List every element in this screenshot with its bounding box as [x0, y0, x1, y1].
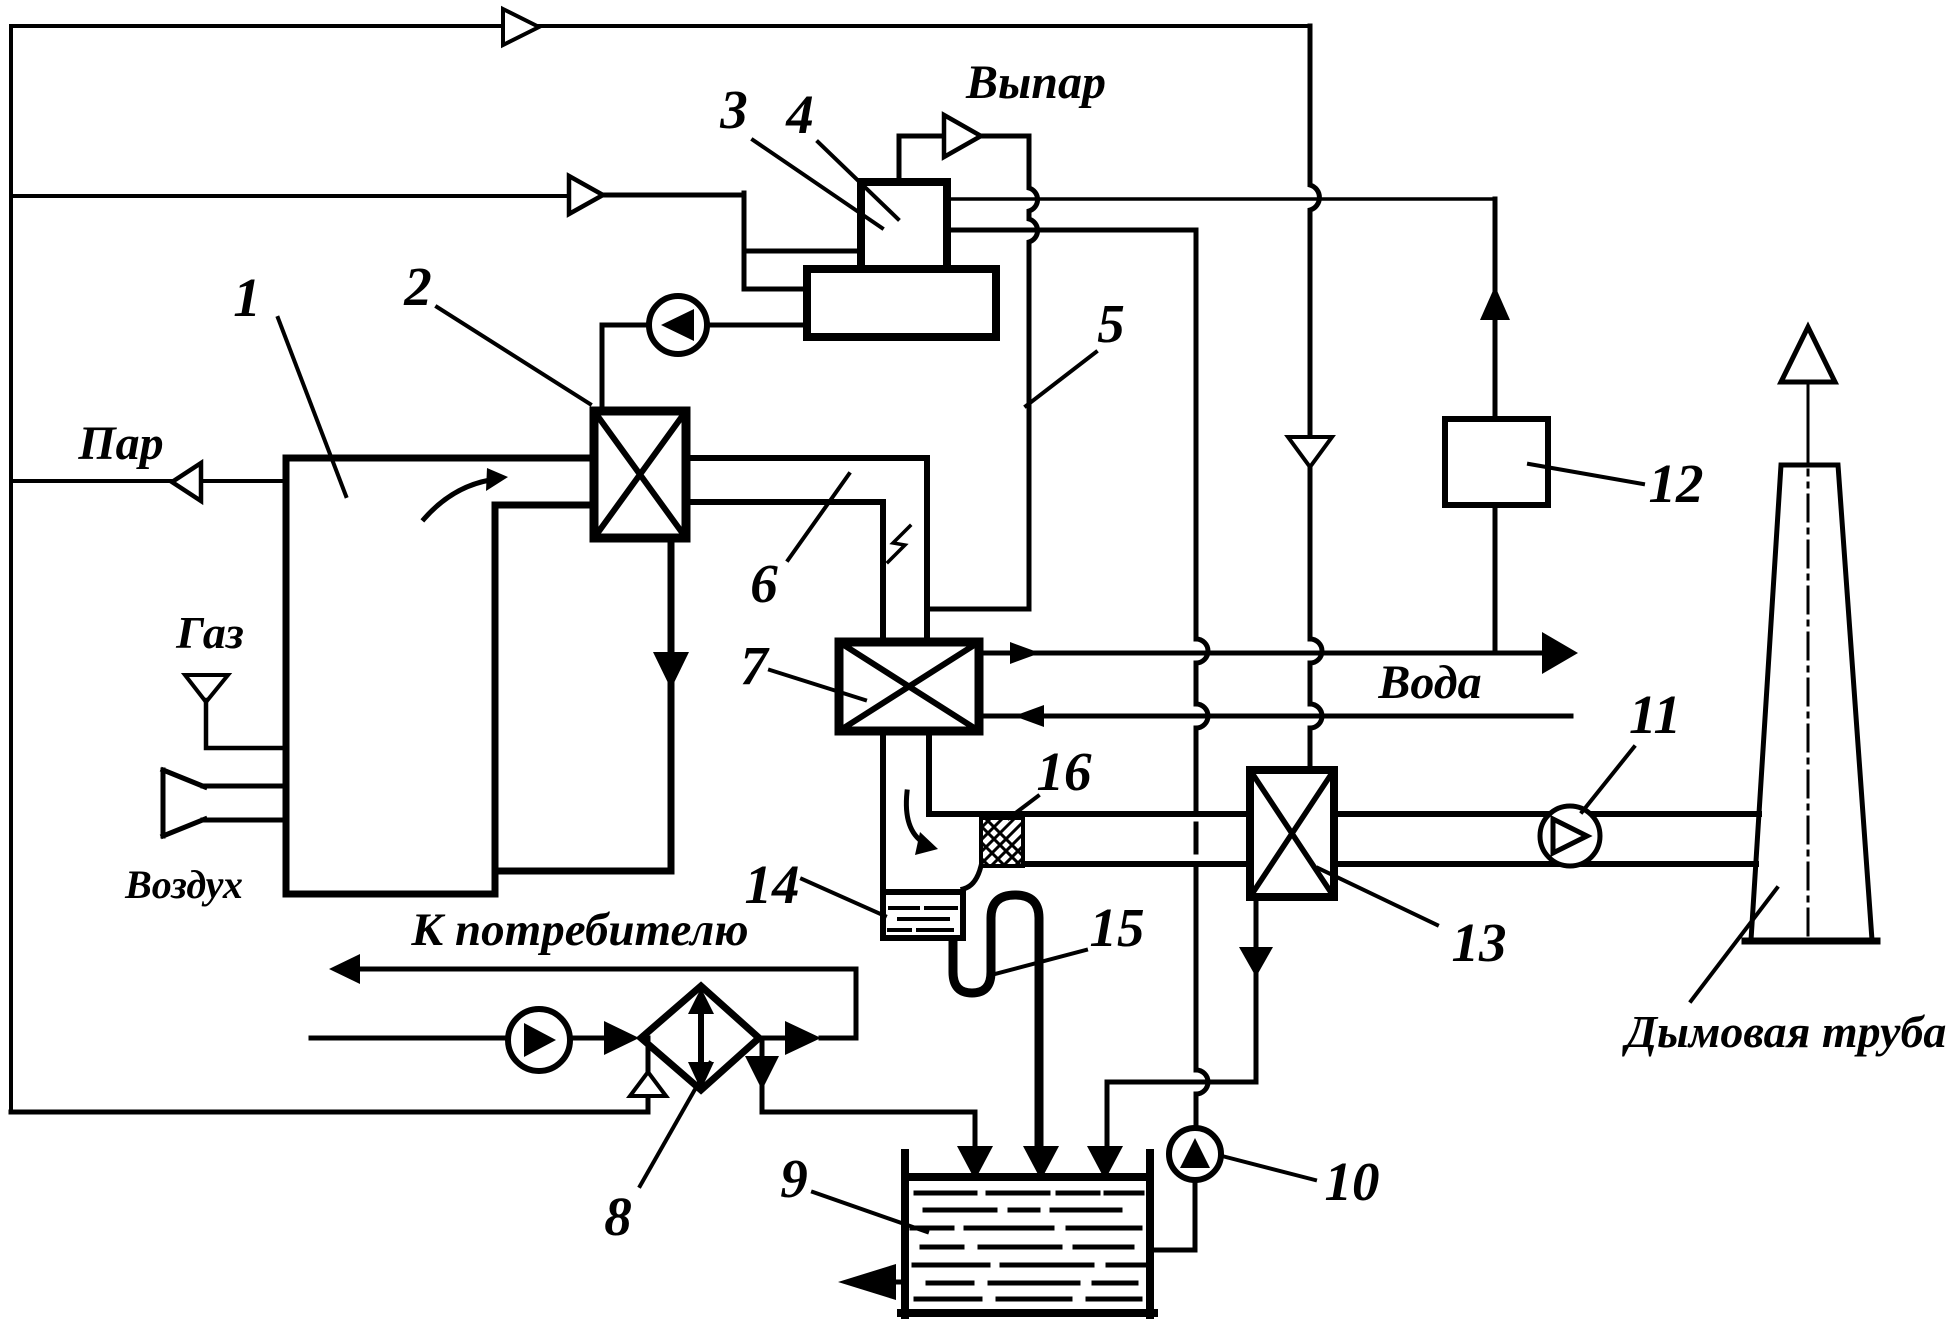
filled left arrow on return water line [1014, 705, 1044, 727]
wire: supply line to network pump [311, 1036, 508, 1041]
chimney axis dash-dot line [1807, 470, 1810, 935]
svg-text:Вода: Вода [1377, 656, 1481, 709]
boiler 1 outer walls [286, 458, 671, 894]
wire: pump suction from exchanger 2 top [602, 325, 649, 411]
svg-text:1: 1 [233, 267, 261, 328]
svg-text:5: 5 [1097, 293, 1125, 354]
leader for chimney label [1691, 888, 1777, 1001]
leader for label 8 [640, 1063, 710, 1186]
flue duct bottom line [1023, 861, 1250, 867]
water seal tank 14 [883, 892, 963, 938]
wire: hot water line Вода upper [979, 651, 1542, 656]
leader for label 7 [770, 670, 865, 700]
svg-text:9: 9 [780, 1148, 808, 1209]
filled arrow after elevator [785, 1021, 821, 1055]
elevator 8 diamond [641, 986, 759, 1090]
filled down arrow on 13 drain [1239, 947, 1273, 977]
open arrow on second line [569, 176, 603, 214]
filled arrow on upper water line [1010, 642, 1040, 664]
svg-text:15: 15 [1090, 897, 1145, 958]
siphon trap 15 [953, 895, 1039, 1146]
svg-text:13: 13 [1452, 912, 1507, 973]
wire: return water line lower [1014, 714, 1571, 719]
svg-text:6: 6 [750, 553, 778, 614]
flue duct from 13 to chimney [1334, 814, 1759, 864]
tank 9 water dashes [916, 1191, 1142, 1196]
wire: top steam recirculation line [11, 24, 1310, 28]
wire: pipe from exchanger 2 bottom-right to exchanger 7 [686, 502, 883, 642]
air funnel symbol [163, 770, 205, 836]
svg-text:Выпар: Выпар [965, 56, 1106, 109]
leader for label 1 [278, 318, 346, 496]
gas funnel symbol [185, 675, 228, 702]
smoke exhauster pump 11 [1540, 806, 1600, 866]
wire: steam output line Пар [11, 479, 286, 483]
chimney trapezoid [1751, 465, 1872, 940]
wire: bottom return line from left border [11, 1110, 648, 1115]
water dashes in tank 14 [889, 908, 956, 930]
filled left arrow К потребителю [329, 954, 360, 984]
tank drain arrow [890, 1280, 905, 1285]
svg-text:4: 4 [785, 84, 814, 145]
big filled arrow at end of water line [1542, 632, 1578, 674]
economizer box 12 [1445, 419, 1548, 505]
exchanger 13 cross diagonals [1250, 770, 1334, 897]
heat exchanger 7 [839, 642, 979, 731]
leader for label 3 [753, 140, 882, 228]
leader for label 16 [1009, 796, 1038, 818]
filled down arrow on elevator branch [745, 1056, 779, 1090]
heat exchanger 13 [1250, 770, 1334, 897]
chimney axis top line [1807, 382, 1810, 465]
leader for label 13 [1318, 868, 1437, 925]
filled arrow before elevator [604, 1021, 639, 1055]
curved gas-flow arrow in boiler furnace [424, 480, 490, 519]
wire: top line vertical branch with hops down to exchanger 13 [1310, 26, 1322, 770]
network pump triangle [524, 1023, 556, 1057]
break mark zigzag on pipe [888, 526, 910, 562]
deaerator tank 4 [807, 269, 996, 337]
three inlet arrows into tank 9 [957, 1146, 993, 1180]
exchanger 2 cross diagonals [594, 411, 686, 538]
network pump circle [508, 1009, 570, 1071]
wire: exchanger 13 bottom drain [1107, 897, 1256, 1148]
svg-text:Дымовая труба: Дымовая труба [1622, 1006, 1947, 1057]
leader for label 12 [1529, 464, 1643, 484]
curve from tank 14 to hatch [963, 866, 981, 889]
deaerator column 3 [861, 182, 947, 277]
leader for label 14 [802, 879, 885, 916]
wire: vent from deaerator head [899, 136, 944, 182]
leader for label 9 [813, 1192, 927, 1232]
wire: elevator down branch to tank [762, 1038, 975, 1146]
pump 10 triangle up [1180, 1138, 1210, 1168]
svg-text:Газ: Газ [175, 607, 244, 658]
exchanger 7 cross diagonals [839, 642, 979, 731]
svg-text:Пар: Пар [77, 417, 163, 470]
open arrow Пар pointing left [172, 463, 201, 501]
elevator interior double arrow [698, 1008, 704, 1068]
heat exchanger 2 (drum) [594, 411, 686, 538]
wire: thin line from column 3 to economizer 12 [946, 197, 1495, 201]
svg-text:8: 8 [604, 1186, 632, 1247]
open valve triangle on that branch [1288, 437, 1332, 467]
wire: thick blowdown line from column 3 turning down [946, 230, 1208, 1128]
leader for label 11 [1582, 747, 1634, 812]
wire: vent line going right then down (line 5) with hops [927, 136, 1038, 609]
tank 9 water surface [905, 1173, 1150, 1181]
feed pump triangle pointing left [661, 309, 694, 341]
wire: pipe from exchanger 2 top-right to exchanger 7 [686, 458, 927, 642]
wire: pump to elevator 8 [570, 1036, 604, 1041]
leader for label 5 [1026, 352, 1096, 406]
down arrow inside boiler second pass [653, 652, 689, 689]
wire: gas supply [206, 700, 286, 748]
wire: left border vertical [9, 26, 13, 1112]
wire: pump 10 suction from tank 9 [1150, 1180, 1195, 1250]
open arrow on top line [503, 9, 539, 45]
curved gas arrow in downcomer [906, 792, 924, 843]
leader for label 10 [1222, 1156, 1315, 1180]
leader for label 4 [818, 142, 898, 219]
wire: second feed line (thin part) [11, 194, 569, 198]
svg-text:Воздух: Воздух [124, 862, 243, 907]
svg-text:16: 16 [1037, 741, 1093, 802]
wire: air duct double line [203, 786, 286, 820]
svg-text:К потребителю: К потребителю [410, 904, 748, 956]
open arrow on vent line Выпар [944, 115, 981, 157]
wire: second feed line thick part to deaerator [603, 193, 861, 289]
make-up tank 9 walls [901, 1153, 1154, 1315]
wire: elevator outlet right [759, 1036, 856, 1041]
wire: box 12 down to water line [1493, 505, 1498, 653]
svg-text:3: 3 [719, 79, 748, 140]
svg-text:14: 14 [745, 854, 800, 915]
svg-text:11: 11 [1629, 684, 1681, 745]
open valve triangle on riser [630, 1072, 666, 1096]
wire: К потребителю upper line [360, 969, 856, 1038]
filled up arrow on that wire [1480, 286, 1510, 320]
wire: riser with check valve to elevator [646, 1038, 651, 1112]
wire: gas downcomer walls below exchanger 7 [883, 731, 929, 892]
leader for label 15 [991, 950, 1086, 975]
wire: from thin line down into box 12 [1493, 199, 1498, 419]
leader for label 6 [788, 474, 849, 560]
wire: feed pump discharge to deaerator tank 4 [707, 323, 807, 328]
svg-text:10: 10 [1325, 1151, 1380, 1212]
chimney base line [1745, 938, 1877, 945]
feed pump circle [649, 296, 707, 354]
svg-text:2: 2 [403, 256, 432, 317]
open arrow at chimney top [1781, 327, 1835, 382]
leader for label 2 [437, 307, 590, 404]
hatch block 16 (packing) [981, 818, 1023, 866]
svg-text:7: 7 [740, 635, 770, 696]
svg-text:12: 12 [1649, 453, 1704, 514]
flue duct top line [929, 811, 1250, 817]
pump 10 circle [1169, 1128, 1221, 1180]
